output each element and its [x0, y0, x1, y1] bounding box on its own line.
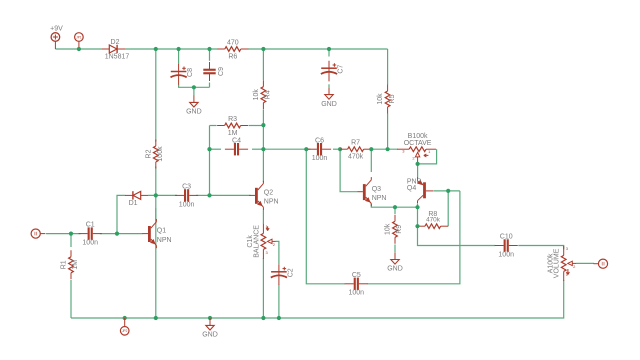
svg-text:NPN: NPN [264, 199, 279, 206]
resistor R1 1M [61, 250, 80, 279]
capacitor C7 [321, 61, 345, 82]
wire C9 bottom stub [209, 83, 211, 88]
svg-text:Q4: Q4 [407, 185, 416, 192]
svg-text:100n: 100n [82, 240, 98, 247]
svg-text:R7: R7 [351, 140, 360, 147]
svg-text:D2: D2 [111, 39, 120, 46]
svg-text:NPN: NPN [372, 195, 387, 202]
svg-text:C6: C6 [315, 137, 324, 144]
wire Q1 collector up [155, 195, 157, 220]
resistor R3 1M [217, 116, 248, 137]
svg-text:C7: C7 [337, 65, 344, 74]
wire D1-C3 [148, 194, 177, 196]
wire input seg2 [100, 233, 143, 235]
resistor R8 470k [418, 211, 449, 229]
wire Q4 to R8 [417, 207, 419, 226]
wire Q2 emitter to balance [262, 210, 264, 224]
svg-text:Q3: Q3 [372, 186, 381, 193]
junction (209.5,149.2) [207, 147, 211, 151]
capacitor C8 [171, 64, 195, 85]
junction (178.6,49.0) [177, 47, 181, 51]
wire C7 gnd stub [328, 84, 330, 87]
svg-text:470: 470 [227, 39, 239, 46]
wire C3 right [196, 194, 210, 196]
resistor R4 10k [253, 80, 272, 109]
ground GND2 on rail [202, 318, 218, 339]
resistor R2 100k [145, 140, 164, 169]
junction (448.2,190.9) [446, 189, 450, 193]
junction (78.9,49.0) [77, 47, 81, 51]
connector JP2 [120, 318, 129, 335]
transistor Q3 NPN [357, 177, 386, 206]
svg-text:GND: GND [387, 266, 403, 273]
junction (155.8,49.0) [154, 47, 158, 51]
wire R1 top [70, 234, 72, 247]
wire mid seg2 [333, 148, 340, 150]
wire C4 left [210, 148, 222, 150]
wire R3 right [249, 125, 264, 127]
junction (209.5,149.2) [207, 147, 211, 151]
junction (263.4,149.2) [261, 147, 265, 151]
svg-text:10k: 10k [385, 223, 392, 235]
wire Q3 base [340, 149, 357, 192]
diode D2 1N5817 [102, 39, 129, 61]
svg-text:+9V: +9V [50, 26, 63, 33]
wire mid seg1 [263, 148, 310, 150]
power +9V supply symbol [50, 26, 63, 49]
junction (263.4,125.1) [261, 123, 265, 127]
potentiometer OCTAVE B100k [397, 133, 436, 164]
wire volume wiper to jack [576, 262, 594, 264]
potentiometer VOLUME A100k [548, 246, 577, 281]
wire R9 gnd [394, 245, 396, 253]
svg-text:C5: C5 [352, 272, 361, 279]
junction (371.3,149.2) [369, 147, 373, 151]
svg-text:10k: 10k [253, 89, 260, 101]
svg-text:470k: 470k [426, 217, 441, 224]
wire R3L-C4L-C3 column [209, 126, 211, 196]
svg-text:10k: 10k [377, 93, 384, 105]
capacitor C4 [225, 137, 248, 155]
wire input seg1 [46, 233, 81, 235]
wire C10 to volume [518, 246, 563, 250]
wire R8 right up [447, 191, 449, 226]
wire R4 top [262, 49, 264, 80]
output jack J2 [594, 259, 608, 268]
svg-text:R2: R2 [145, 149, 152, 158]
svg-text:100n: 100n [349, 290, 365, 297]
wire R5 top [387, 49, 389, 85]
wire C7 top [328, 49, 330, 57]
wire C5 left [306, 149, 345, 284]
svg-text:GND: GND [186, 109, 202, 116]
junction (417.5,226.2) [415, 224, 419, 228]
wire R5 bottom [387, 114, 389, 150]
wire bottom rail [71, 280, 564, 318]
capacitor C5 100n [345, 272, 368, 297]
junction (263.4,318.0) [261, 316, 265, 320]
svg-text:JP2: JP2 [122, 329, 128, 333]
wire Q1 emitter down [155, 208, 157, 318]
svg-text:C9: C9 [218, 67, 225, 76]
wire R3R-C4R-Q2C column [262, 125, 264, 182]
capacitor C2 [271, 264, 295, 285]
svg-text:100k: 100k [157, 146, 164, 162]
wire C5 right up [368, 191, 460, 284]
wire Q3 collector up [370, 149, 372, 172]
capacitor C3 100n [175, 184, 198, 209]
svg-text:R5: R5 [389, 94, 396, 103]
junction (209.5,195.4) [207, 193, 211, 197]
transistor Q4 PNP [407, 177, 434, 203]
junction (387.6,149.2) [386, 147, 390, 151]
input jack J1 [31, 229, 45, 238]
svg-text:R6: R6 [228, 53, 237, 60]
ground GND under R9 [387, 253, 403, 273]
wire R1 bottom [70, 280, 72, 318]
junction (340.1,149.2) [338, 147, 342, 151]
svg-text:C1: C1 [86, 222, 95, 229]
junction (417.6,163.9) [416, 162, 420, 166]
svg-text:NPN: NPN [157, 237, 172, 244]
capacitor C1 100n [79, 222, 102, 247]
wire top rail seg2 [125, 48, 218, 50]
wire Q4 base right [434, 190, 460, 192]
svg-text:VOLUME: VOLUME [554, 248, 561, 278]
svg-text:C4: C4 [232, 137, 241, 144]
svg-text:D1: D1 [129, 200, 138, 207]
svg-text:OCTAVE: OCTAVE [404, 140, 432, 147]
svg-text:C3: C3 [182, 184, 191, 191]
junction (71.0,233.6) [69, 232, 73, 236]
junction (124.7,318.0) [123, 316, 127, 320]
wire mid seg3 [371, 148, 398, 150]
junction (417.5,207.2) [415, 205, 419, 209]
svg-text:1M: 1M [228, 130, 238, 137]
junction (117.0,233.6) [115, 232, 119, 236]
wire C8 top [178, 49, 180, 64]
wire R8 to C10 [418, 226, 496, 245]
wire R4 bottom [262, 110, 264, 126]
svg-text:100n: 100n [498, 251, 514, 258]
wire Q4 emitter up [417, 164, 419, 178]
wire Q4 collector down [417, 204, 419, 208]
junction (329.0,49.0) [327, 47, 331, 51]
junction (193.9,87.3) [192, 85, 196, 89]
svg-text:B100k: B100k [408, 133, 428, 140]
resistor R5 10k [377, 85, 396, 114]
ground GND1 [186, 95, 202, 115]
svg-text:R3: R3 [228, 116, 237, 123]
svg-text:Q1: Q1 [157, 228, 166, 235]
junction (155.8,195.4) [154, 193, 158, 197]
wire GND1 stub [193, 87, 195, 95]
svg-text:100n: 100n [312, 155, 328, 162]
capacitor C6 100n [308, 137, 331, 162]
svg-text:100n: 100n [179, 201, 195, 208]
junction (209.5,49.0) [207, 47, 211, 51]
resistor R7 470k [340, 140, 371, 161]
svg-text:C2: C2 [287, 268, 294, 277]
connector JP1 [75, 33, 84, 49]
wire Q2 base [210, 194, 251, 196]
svg-text:C10: C10 [500, 234, 513, 241]
transistor Q1 NPN [142, 219, 171, 248]
svg-text:1M: 1M [72, 260, 79, 270]
wire C4 right [252, 148, 263, 150]
wire balance wiper to C2 [276, 241, 279, 264]
diode D1 [125, 191, 148, 207]
junction (155.8,318.0) [154, 316, 158, 320]
junction (306.3,149.2) [304, 147, 308, 151]
wire R2 top [155, 49, 157, 142]
wire balance to rail [262, 258, 264, 318]
svg-text:BALANCE: BALANCE [253, 225, 260, 258]
wire D1 left [117, 195, 125, 233]
svg-text:1N5817: 1N5817 [105, 54, 130, 61]
wire top rail seg1 [55, 48, 102, 50]
capacitor C9 [203, 62, 225, 81]
potentiometer BALANCE C1k [247, 224, 276, 259]
wire R3 left [210, 125, 217, 127]
svg-text:R1: R1 [61, 260, 68, 269]
transistor Q2 NPN [249, 181, 278, 210]
junction (395.0,207.2) [393, 205, 397, 209]
wire top rail seg3 [248, 48, 388, 50]
svg-text:GND: GND [202, 332, 218, 339]
wire R9 top [394, 207, 396, 214]
svg-text:R4: R4 [265, 90, 272, 99]
svg-text:JP1: JP1 [76, 35, 82, 39]
svg-text:R9: R9 [396, 225, 403, 234]
junction (278.9,318.0) [277, 316, 281, 320]
svg-text:GND: GND [321, 101, 337, 108]
wire octave pin1 bracket [418, 149, 437, 164]
wire C8-C9 bottom [179, 84, 210, 87]
capacitor C10 100n [495, 234, 518, 259]
svg-text:C8: C8 [187, 68, 194, 77]
wire R2 bottom [155, 167, 157, 196]
wire C2 bottom [278, 285, 280, 318]
svg-text:470k: 470k [348, 154, 364, 161]
resistor R6 470 [217, 39, 248, 60]
wire C9 top [209, 49, 211, 61]
wire Q3 emitter to Q4 [371, 204, 417, 208]
svg-text:Q2: Q2 [264, 190, 273, 197]
ground GND under C7 [321, 88, 337, 108]
junction (263.4,49.0) [261, 47, 265, 51]
resistor R9 10k [385, 215, 404, 244]
junction (210.0,318.0) [208, 316, 212, 320]
